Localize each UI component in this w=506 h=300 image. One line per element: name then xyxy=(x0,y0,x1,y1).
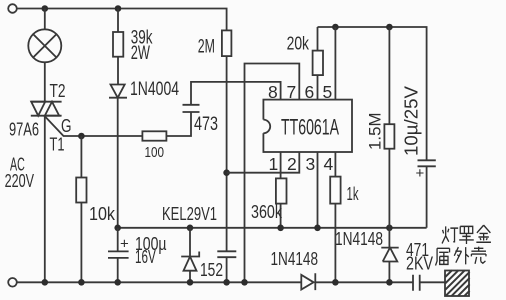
node dot rail d2 xyxy=(386,279,393,286)
resistor 1.5M xyxy=(388,27,390,124)
zener KEL29V1 xyxy=(181,228,199,282)
svg-text:TT6061A: TT6061A xyxy=(281,115,339,140)
wire pin3 xyxy=(317,152,319,228)
svg-text:2M: 2M xyxy=(198,35,215,57)
wire lamp column xyxy=(44,9,46,30)
wire 20k to pin6 xyxy=(317,75,319,100)
svg-text:360k: 360k xyxy=(251,202,283,222)
wire VDD node line xyxy=(118,227,427,229)
svg-text:+: + xyxy=(416,165,425,182)
wire bottom rail left xyxy=(17,281,302,283)
node dot rail 100u xyxy=(114,279,121,286)
svg-text:T1: T1 xyxy=(50,135,65,155)
label lamp-shell chinese row1 xyxy=(442,225,491,244)
node dot gate xyxy=(78,133,85,140)
node dot rail 10k xyxy=(78,279,85,286)
svg-text:20k: 20k xyxy=(287,33,310,53)
svg-text:8: 8 xyxy=(268,82,278,102)
IC U1 TT6061A body xyxy=(263,100,352,152)
svg-text:KEL29V1: KEL29V1 xyxy=(162,204,217,224)
svg-text:2KV: 2KV xyxy=(406,253,433,273)
wire C473 to pin8 xyxy=(191,82,281,105)
node dot rail 1k xyxy=(332,279,339,286)
node dot rail pin7 xyxy=(241,279,248,286)
svg-text:6: 6 xyxy=(305,82,315,102)
svg-text:1N4148: 1N4148 xyxy=(335,229,383,249)
node dot railB pin5 xyxy=(332,24,339,31)
diode 1N4148 vertical xyxy=(381,228,398,282)
node dot 2M column pin2 line xyxy=(223,169,230,176)
node dot top rail at lamp column xyxy=(42,5,49,12)
svg-text:2W: 2W xyxy=(131,42,151,64)
wire bottom rail mid xyxy=(315,281,413,283)
wire 152 to rail xyxy=(226,257,228,282)
capacitor 471 2KV xyxy=(413,275,420,291)
resistor 20k xyxy=(317,27,319,51)
terminal bottom-left xyxy=(8,278,17,287)
terminal top-left xyxy=(8,4,17,13)
node dot rail T1 xyxy=(42,279,49,286)
capacitor 100u 16V xyxy=(108,228,129,282)
diode 1N4148 horizontal xyxy=(301,273,315,290)
node dot VDD zener xyxy=(187,225,194,232)
node dot top rail at 39k column xyxy=(115,5,122,12)
svg-text:1: 1 xyxy=(269,154,279,174)
wire diode to VDD node xyxy=(117,98,119,228)
svg-text:97A6: 97A6 xyxy=(9,120,39,140)
resistor 360k xyxy=(276,178,287,203)
wire pin2 line xyxy=(227,152,300,173)
resistor 100 xyxy=(142,131,166,140)
svg-text:5: 5 xyxy=(323,82,333,102)
wire 39k to diode xyxy=(117,57,119,85)
wire 10k to rail xyxy=(80,203,82,283)
svg-text:3: 3 xyxy=(306,154,316,174)
label lamp-shell chinese row2 xyxy=(436,247,486,266)
svg-text:473: 473 xyxy=(194,113,218,135)
svg-text:10µ/25V: 10µ/25V xyxy=(402,86,422,156)
svg-text:T2: T2 xyxy=(50,81,66,101)
node dot VDD pin3 xyxy=(314,225,321,232)
svg-text:2: 2 xyxy=(287,154,297,174)
wire gate to C473 xyxy=(166,112,191,136)
svg-text:152: 152 xyxy=(200,260,223,280)
wire 2M column down xyxy=(226,56,228,251)
diode 1N4004 xyxy=(109,85,127,98)
wire lamp to triac xyxy=(44,62,46,101)
lamp EL xyxy=(28,29,61,62)
lamp shell hatched box xyxy=(445,271,469,297)
node dot VDD 1.5M xyxy=(386,225,393,232)
resistor 39k xyxy=(117,9,119,33)
svg-text:+: + xyxy=(120,236,129,253)
wire 360k to VDD xyxy=(280,204,282,228)
svg-text:220V: 220V xyxy=(5,171,34,191)
wire pin1 xyxy=(280,152,282,178)
svg-text:100: 100 xyxy=(145,144,165,161)
capacitor 152 xyxy=(217,251,236,257)
wire rail B xyxy=(318,27,427,160)
wire pin7 loop xyxy=(245,64,300,283)
resistor 2M xyxy=(222,30,232,56)
wire gate xyxy=(45,116,143,136)
svg-text:10k: 10k xyxy=(89,204,116,224)
node dot rail 152 xyxy=(223,279,230,286)
triac T2 97A6 xyxy=(31,102,62,116)
node dot VDD 100u xyxy=(114,225,121,232)
wire T1 main terminal xyxy=(44,116,46,283)
svg-text:1k: 1k xyxy=(347,184,360,204)
resistor 1k xyxy=(330,177,340,204)
svg-text:4: 4 xyxy=(324,154,334,174)
wire 1k to rail xyxy=(334,204,336,283)
capacitor 473 xyxy=(183,105,200,112)
svg-text:7: 7 xyxy=(287,82,297,102)
resistor 10k xyxy=(80,136,82,178)
svg-text:1N4004: 1N4004 xyxy=(130,78,179,100)
node dot rail zener xyxy=(187,279,194,286)
wire pin5 xyxy=(334,27,336,100)
svg-text:G: G xyxy=(61,116,72,136)
capacitor 10u 25V xyxy=(418,160,436,228)
wire top rail xyxy=(17,9,227,31)
wire rail to shell xyxy=(420,281,445,283)
svg-text:16V: 16V xyxy=(135,247,156,267)
wire pin4 xyxy=(334,152,336,177)
svg-text:1.5M: 1.5M xyxy=(366,113,385,151)
node dot VDD 360k xyxy=(277,225,284,232)
svg-text:1N4148: 1N4148 xyxy=(271,249,319,269)
node dot railB 1.5M xyxy=(386,24,393,31)
